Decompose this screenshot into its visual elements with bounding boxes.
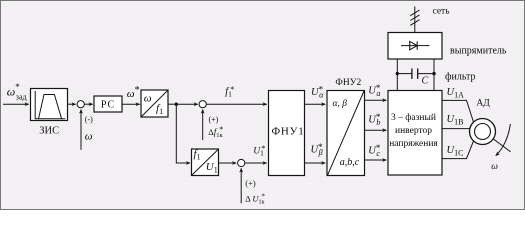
diode cathode bar [416,41,418,49]
wire omega feedback [80,110,82,150]
svg-text:(+): (+) [209,115,219,124]
wire converter to summer3 [219,162,237,164]
svg-text:U*β: U*β [311,142,324,157]
svg-text:РС: РС [101,100,115,111]
wire rectifier to inverter left [396,59,398,91]
wire U1B inverter to motor [442,128,470,130]
svg-text:напряжения: напряжения [389,139,438,149]
ZIS axes [35,91,65,119]
f1-U1 diagonal [192,150,218,175]
motor AD outer circle [470,119,496,145]
svg-text:сеть: сеть [433,7,451,17]
wire U*beta FNU1 to FNU2 [305,162,326,164]
block f1 to U1 converter [192,149,219,176]
svg-text:АД: АД [476,99,490,109]
summing junction 2 [199,101,206,108]
svg-text:инвертор: инвертор [395,126,432,136]
supply slash 1 [410,10,419,16]
svg-text:ФНУ1: ФНУ1 [271,126,304,138]
svg-text:U*b: U*b [368,112,381,127]
svg-text:ω: ω [144,92,152,104]
capacitor plate left [411,68,413,79]
wire converter to node [168,103,176,105]
wire U*alpha FNU1 to FNU2 [305,103,326,105]
wire U*a to inverter [365,99,387,101]
supply slash 2 [410,15,419,21]
svg-text:α, β: α, β [333,99,348,109]
block FNU1 [269,91,305,176]
wire summer2 to FNU1 [206,103,266,105]
block 3-phase voltage inverter [388,91,442,176]
wire ZIS to summer1 [68,103,76,105]
block omega to f1 converter U1 [141,90,168,117]
wire PC to omega-f1 converter [122,103,140,105]
svg-text:3 – фазный: 3 – фазный [391,112,436,123]
wire U*c to inverter [365,159,387,161]
node dot right [432,72,435,75]
svg-text:фильтр: фильтр [445,72,476,83]
summing junction 1 [77,101,84,108]
node junction f1 [175,103,178,106]
wire U*b to inverter [365,129,387,131]
diode anode line [401,45,430,47]
svg-text:(-): (-) [85,115,93,124]
block PC speed regulator [94,96,122,112]
rotation omega arrow [496,124,511,156]
block FNU2 coordinate transform [327,91,365,176]
filter capacitor wire right [418,73,434,75]
svg-text:U*a: U*a [368,83,381,98]
block ZIS [31,89,68,121]
wire rectifier to inverter right [433,59,435,91]
motor AD inner circle [475,124,491,140]
wire omega*zad input arrow [3,103,29,105]
svg-text:U*c: U*c [368,143,381,158]
svg-text:(+): (+) [245,178,256,188]
wire summer1 to PC [84,103,92,105]
supply slash 3 [410,20,419,26]
svg-text:ω: ω [85,131,93,143]
wire delta U1k input [240,168,242,203]
ZIS trapezoid ramp symbol [39,95,62,119]
svg-text:ФНУ2: ФНУ2 [335,78,361,88]
summing junction 3 [238,159,245,166]
wire summer3 to FNU1 [245,162,267,164]
omega-f1 diagonal [142,91,168,117]
filter capacitor wire left [397,73,412,75]
block rectifier [388,33,442,60]
node dot left [396,72,399,75]
svg-text:C: C [422,76,429,87]
wire delta f1k input [202,110,204,140]
wire node to summer2 [176,103,197,105]
svg-text:ω: ω [491,162,498,172]
wire U1A inverter to motor [442,100,474,122]
diode triangle [410,41,418,49]
svg-text:ЗИС: ЗИС [39,126,59,137]
svg-text:Δf1к*: Δf1к* [208,125,223,139]
wire U1C inverter to motor [442,140,474,158]
svg-text:выпрямитель: выпрямитель [450,46,507,57]
wire node down to f1-U1 converter [176,104,190,163]
FNU2 diagonal [328,91,364,175]
supply line set [414,7,416,33]
svg-text:a,b,c: a,b,c [340,157,360,168]
svg-text:ΔU1к*: ΔU1к* [245,192,265,206]
motor shaft [493,139,510,152]
capacitor plate right [417,68,419,79]
svg-text:U*α: U*α [311,85,324,100]
